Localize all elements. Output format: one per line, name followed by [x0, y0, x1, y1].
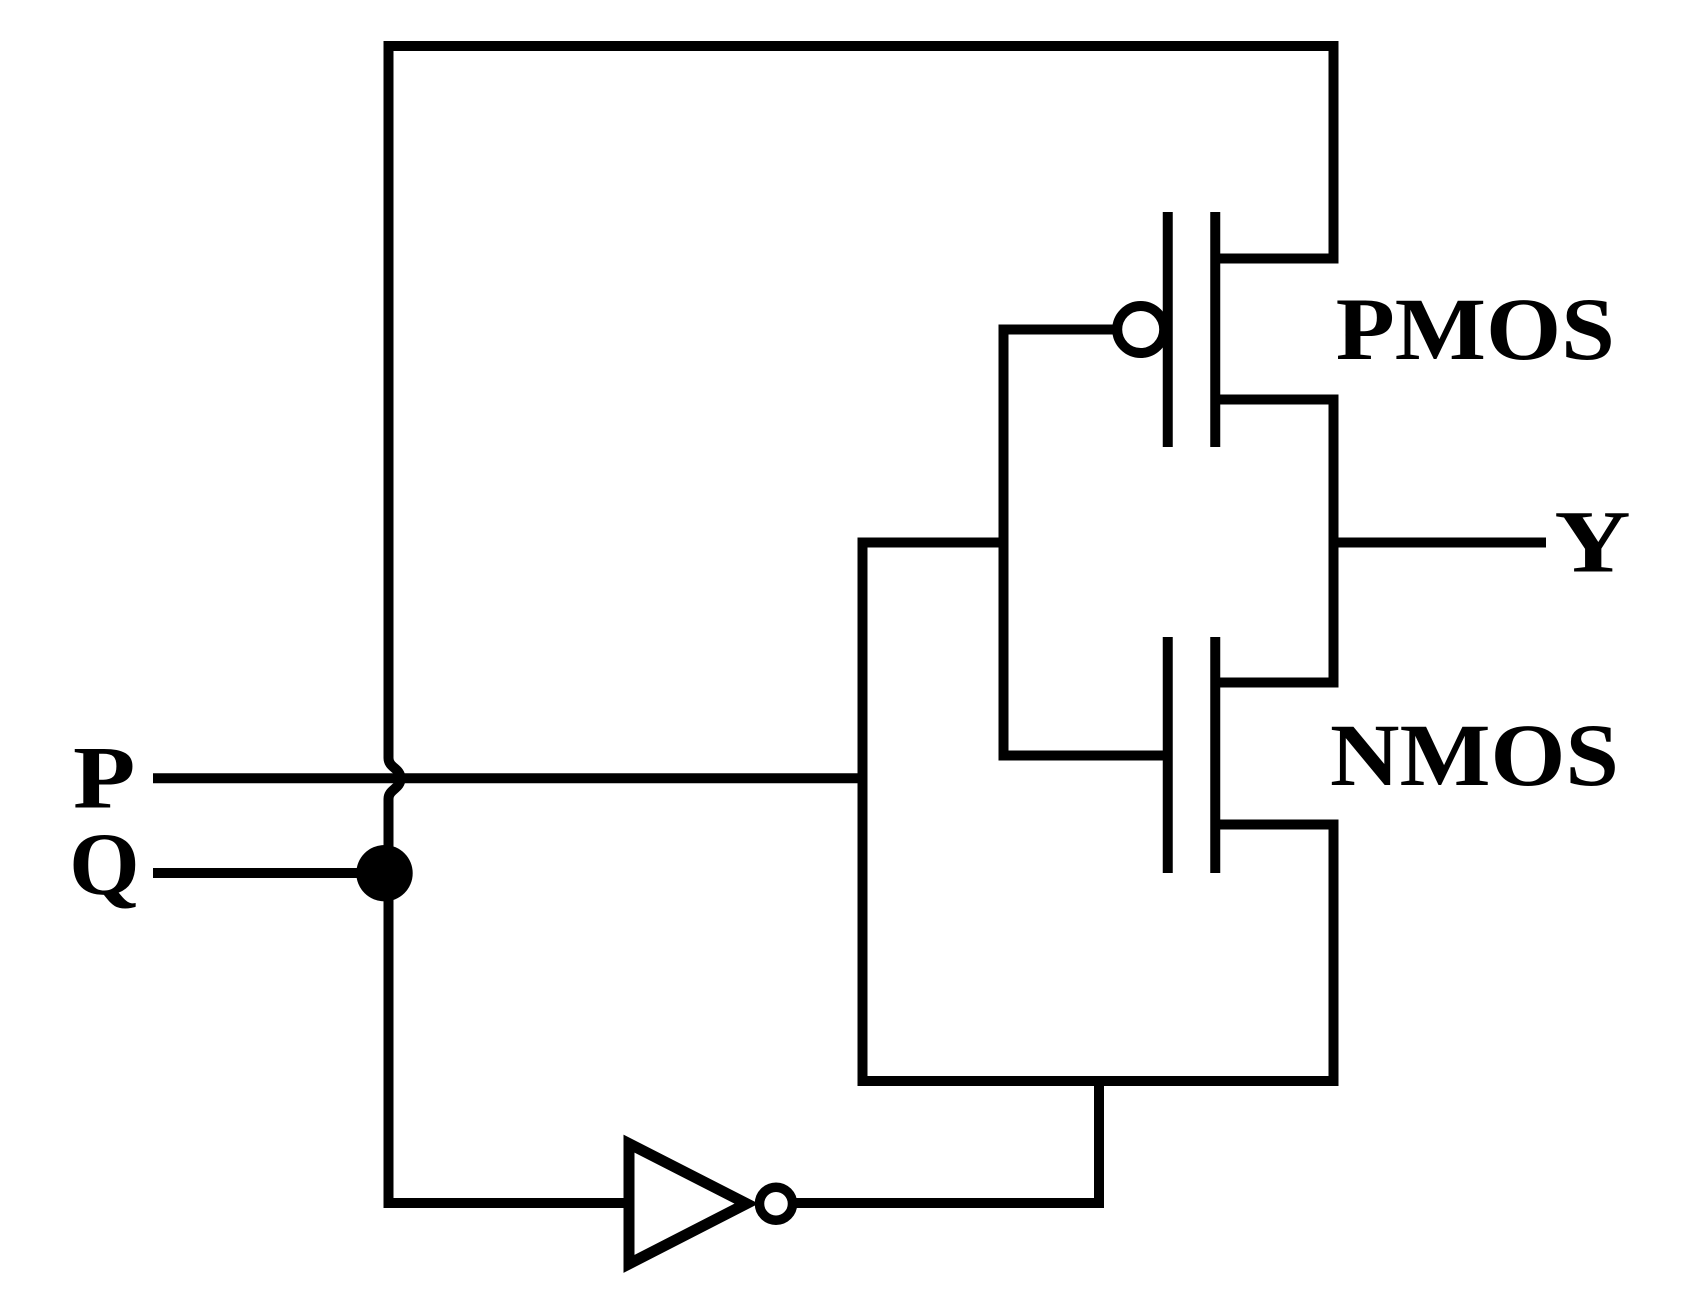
svg-text:PMOS: PMOS	[1336, 281, 1615, 380]
svg-text:NMOS: NMOS	[1330, 706, 1619, 805]
svg-text:Y: Y	[1554, 493, 1630, 591]
svg-text:P: P	[73, 728, 135, 827]
svg-text:Q: Q	[69, 816, 140, 914]
